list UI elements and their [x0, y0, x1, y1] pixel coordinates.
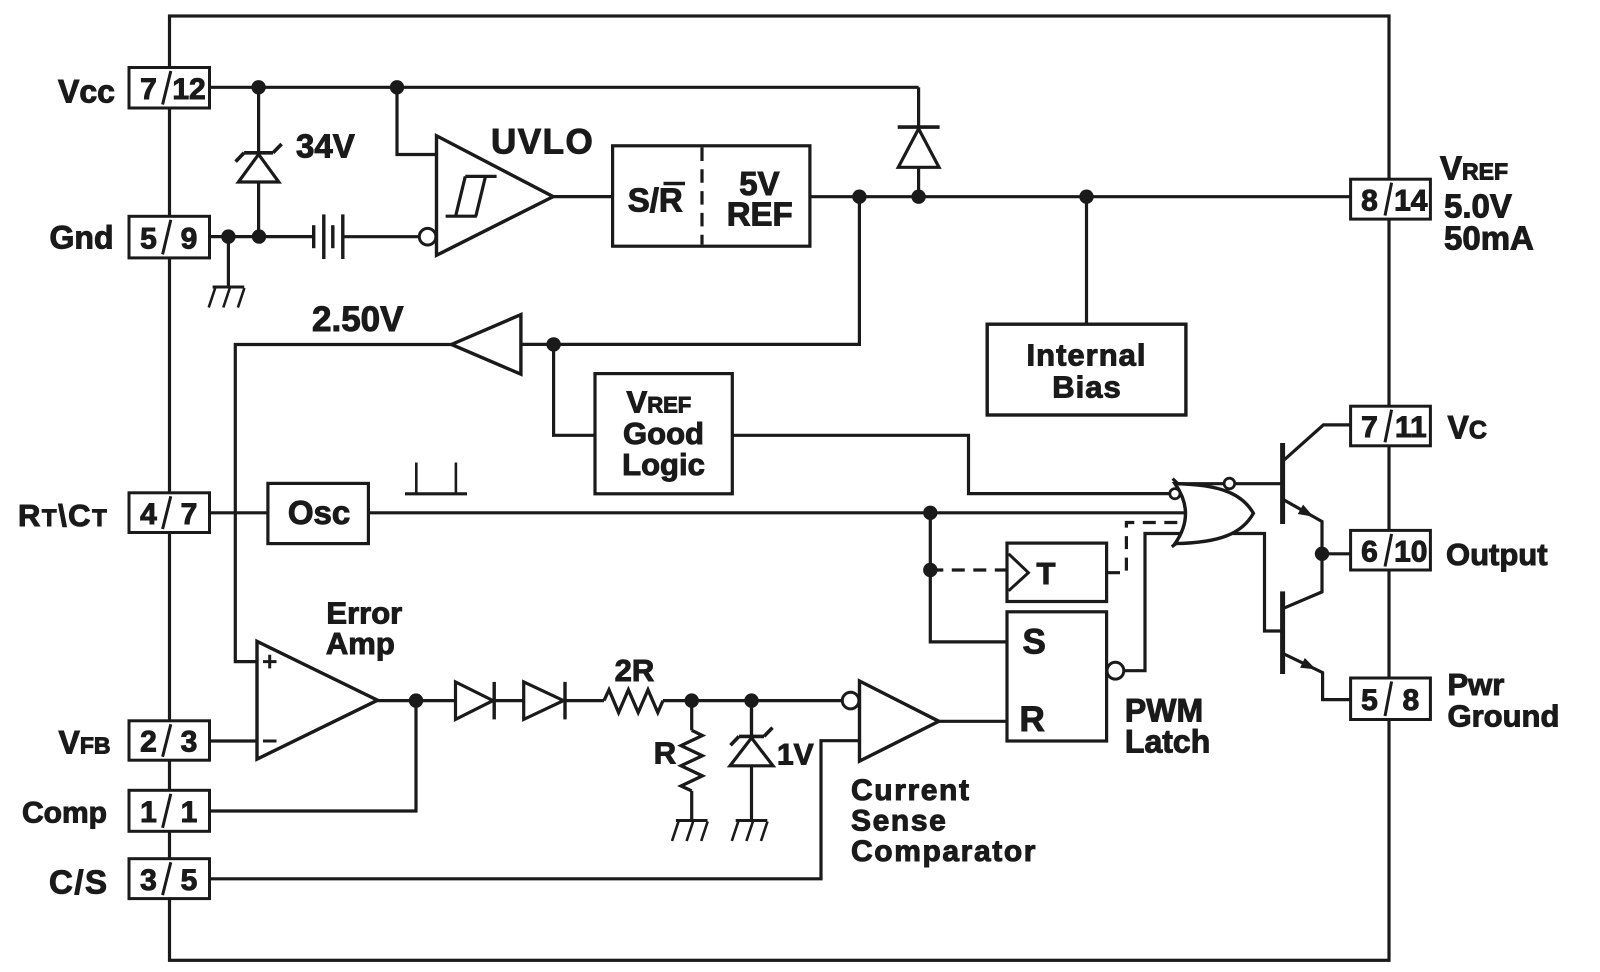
svg-text:1V: 1V: [777, 739, 814, 772]
block Osc: [268, 483, 369, 543]
pin box RT/CT 4/7: [129, 493, 210, 533]
label PWM: [1125, 693, 1203, 729]
svg-text:10: 10: [1394, 535, 1427, 568]
label 5V: [739, 165, 779, 202]
node 2.50V-goodlogic: [546, 337, 560, 351]
svg-text:VFB: VFB: [59, 725, 111, 761]
wire zener D3 top lead: [257, 87, 260, 153]
svg-text:8: 8: [1402, 684, 1419, 717]
label Gnd: [50, 219, 114, 255]
transistor Q2 collector: [1283, 554, 1322, 609]
node divider zener: [744, 693, 758, 707]
svg-text:Output: Output: [1446, 537, 1548, 572]
svg-text:Error: Error: [326, 595, 402, 630]
block S/R 5V REF: [613, 146, 810, 246]
block Internal Bias: [987, 324, 1186, 415]
label S: [1023, 622, 1046, 661]
resistor 2R: [604, 690, 663, 713]
label Comp: [22, 796, 107, 829]
svg-text:Current: Current: [851, 774, 971, 807]
wire RT/CT to Osc: [210, 511, 268, 514]
wire Vcc rail: [210, 86, 919, 89]
diode D1: [456, 682, 495, 720]
wire 2.50V amp output to Error Amp: [235, 345, 452, 662]
wire resistor R bottom lead: [690, 791, 693, 821]
node T clock tap: [923, 563, 937, 577]
label VREF: [1440, 150, 1508, 187]
gate output bubble: [1224, 478, 1235, 489]
label 50mA: [1444, 220, 1534, 257]
wire D2 to resistor 2R: [566, 699, 604, 702]
comparator input bubble: [842, 692, 859, 709]
svg-text:R: R: [654, 736, 676, 771]
battery offset source: [314, 214, 343, 259]
svg-text:5: 5: [140, 222, 157, 255]
pin box VFB 2/3: [129, 721, 210, 760]
label VFB: [59, 725, 111, 761]
label Pwr: [1448, 667, 1505, 702]
svg-text:5: 5: [1361, 684, 1378, 717]
gate input bubble: [1170, 489, 1180, 499]
wire Comp to Error Amp output: [210, 701, 417, 811]
wire UVLO output: [553, 195, 613, 198]
pin box Vcc 7/12: [129, 68, 210, 109]
zener diode D3 34V: [236, 144, 282, 182]
svg-text:Good: Good: [623, 416, 704, 451]
pin box Output 6/10: [1351, 530, 1431, 570]
wire PWM latch output: [1124, 534, 1281, 671]
latch output bubble: [1107, 662, 1124, 679]
wire ground branch: [227, 237, 230, 287]
wire zener D5 bottom lead: [750, 766, 753, 821]
wire Internal Bias feed: [1085, 197, 1088, 325]
svg-text:Osc: Osc: [288, 494, 350, 531]
label Error: [326, 595, 402, 630]
block VREF Good Logic: [595, 374, 732, 494]
pin box C/S 3/5: [129, 859, 210, 899]
label 1V: [777, 739, 814, 772]
svg-text:C/S: C/S: [49, 864, 109, 901]
svg-text:VC: VC: [1448, 410, 1487, 446]
label UVLO: [491, 123, 594, 162]
svg-text:11: 11: [1395, 411, 1427, 444]
label Current: [851, 774, 971, 807]
label Logic: [622, 447, 705, 482]
node divider 2R-R: [685, 693, 699, 707]
label S/R bar: [628, 182, 685, 219]
svg-text:RT\CT: RT\CT: [18, 498, 108, 533]
clock waveform glyph: [405, 463, 467, 494]
latch PWM S/R box: [1007, 612, 1107, 741]
svg-text:S: S: [1023, 622, 1046, 661]
label Output: [1446, 537, 1548, 572]
flip-flop T box: [1007, 543, 1107, 601]
wire diode D4 top lead: [917, 87, 920, 127]
transistor Q2 emitter: [1283, 653, 1351, 699]
svg-text:Ground: Ground: [1448, 698, 1560, 733]
node VREF-2.50V tap: [852, 190, 866, 204]
wire Osc drop to latch S: [930, 513, 1007, 642]
wire Good Logic output to gate: [732, 435, 1170, 493]
wire gate to upper base: [1175, 482, 1283, 485]
svg-text:7: 7: [140, 73, 157, 106]
wire Error Amp output: [378, 699, 456, 702]
wire output node to pin: [1322, 552, 1351, 555]
diode D2: [524, 682, 565, 720]
IC boundary: [170, 16, 1390, 960]
diode D4: [898, 127, 940, 167]
svg-text:50mA: 50mA: [1444, 220, 1534, 257]
pin box Pwr Ground 5/8: [1351, 678, 1431, 720]
label 34V: [296, 128, 355, 165]
op-amp UVLO comparator: [437, 136, 554, 256]
svg-text:Pwr: Pwr: [1448, 667, 1505, 702]
wire battery to UVLO bubble: [343, 235, 420, 238]
node Gnd-ground: [221, 229, 235, 243]
ground symbol under R: [672, 821, 708, 842]
svg-text:Vcc: Vcc: [58, 74, 115, 110]
svg-text:3: 3: [140, 864, 157, 897]
wire resistor R top lead: [690, 701, 693, 731]
svg-text:7: 7: [181, 498, 198, 531]
op-amp Current Sense Comparator: [860, 681, 939, 761]
ground symbol under 1V zener: [732, 821, 768, 842]
wire C/S input: [210, 741, 860, 879]
svg-text:1: 1: [181, 796, 198, 829]
label R divider: [654, 736, 676, 771]
svg-text:Sense: Sense: [851, 805, 947, 838]
pin box Vc 7/11: [1351, 406, 1431, 446]
transistor Q2 base bar: [1280, 591, 1285, 674]
wire dashed Osc to T clock: [930, 568, 1007, 571]
wire VREF to 2.50V amp: [521, 197, 860, 345]
svg-text:Comp: Comp: [22, 796, 107, 829]
wire Gnd rail: [210, 235, 314, 238]
svg-text:4: 4: [140, 498, 157, 531]
wire Good Logic input tap: [554, 344, 595, 435]
svg-text:9: 9: [181, 222, 198, 255]
gate OR output driver: [1172, 479, 1254, 547]
node Osc clock: [923, 506, 937, 520]
label C/S: [49, 864, 109, 901]
svg-text:7: 7: [1361, 411, 1378, 444]
wire dashed T output to gate: [1107, 523, 1235, 573]
label RT/CT: [18, 498, 108, 533]
svg-text:3: 3: [181, 726, 198, 759]
transistor Q1 emitter: [1283, 499, 1322, 548]
wire diode D4 bottom lead: [917, 167, 920, 196]
svg-text:14: 14: [1394, 184, 1428, 217]
ground symbol at Gnd pin: [209, 287, 245, 308]
svg-text:8: 8: [1361, 184, 1378, 217]
svg-text:Internal: Internal: [1027, 338, 1147, 373]
label Internal: [1027, 338, 1147, 373]
node Gnd-zener: [252, 229, 266, 243]
wire VFB input: [210, 739, 258, 742]
pin box Comp 1/1: [129, 790, 210, 831]
label 5.0V: [1444, 188, 1512, 225]
wire VREF rail: [811, 195, 1351, 198]
label Ground: [1448, 698, 1560, 733]
wire 2R to comparator bubble: [663, 699, 843, 702]
op-amp 2.50V buffer: [452, 315, 521, 375]
svg-text:6: 6: [1361, 535, 1378, 568]
label Bias: [1052, 370, 1121, 405]
transistor Q1 collector: [1283, 425, 1352, 461]
wire comparator output to latch R: [939, 720, 1007, 723]
svg-text:Amp: Amp: [326, 626, 395, 661]
svg-text:Bias: Bias: [1052, 370, 1121, 405]
svg-text:2R: 2R: [615, 653, 655, 688]
label R latch: [1020, 700, 1045, 739]
label Osc: [288, 494, 350, 531]
svg-text:Logic: Logic: [622, 447, 705, 482]
resistor R: [681, 730, 702, 791]
wire Osc clock output: [368, 511, 1240, 514]
svg-text:T: T: [1037, 556, 1056, 591]
label Latch: [1125, 724, 1210, 760]
label Vc: [1448, 410, 1487, 446]
label T: [1037, 556, 1056, 591]
svg-text:5: 5: [181, 864, 198, 897]
node Error Amp output: [409, 693, 423, 707]
label Vcc: [58, 74, 115, 110]
label Sense: [851, 805, 947, 838]
wire UVLO plus input branch: [397, 87, 437, 154]
svg-text:12: 12: [172, 73, 205, 106]
zener diode D5 1V: [730, 702, 773, 766]
svg-text:2.50V: 2.50V: [312, 300, 404, 339]
svg-text:UVLO: UVLO: [491, 123, 594, 162]
node Vcc-UVLO: [390, 80, 404, 94]
svg-text:Gnd: Gnd: [50, 219, 114, 255]
node VREF-bias: [1079, 190, 1093, 204]
label 2R: [615, 653, 655, 688]
node VREF-diode: [911, 190, 925, 204]
transistor Q1 base bar: [1280, 443, 1285, 524]
node Vcc-zener: [251, 80, 265, 94]
svg-text:REF: REF: [727, 195, 793, 232]
op-amp Error Amp: [257, 641, 378, 759]
svg-text:Comparator: Comparator: [851, 835, 1037, 868]
label REF: [727, 195, 793, 232]
label Good: [623, 416, 704, 451]
wire zener D3 bottom lead: [257, 181, 260, 237]
pin box VREF 8/14: [1351, 179, 1431, 219]
svg-text:Latch: Latch: [1125, 724, 1210, 760]
label Comparator: [851, 835, 1037, 868]
svg-text:S/R: S/R: [628, 182, 683, 219]
node Output: [1315, 547, 1329, 561]
label VREF good: [627, 385, 692, 420]
svg-text:2: 2: [140, 726, 157, 759]
svg-text:34V: 34V: [296, 128, 355, 165]
svg-text:R: R: [1020, 700, 1045, 739]
UVLO input bubble: [419, 228, 436, 245]
wire zener D5 top lead: [750, 701, 753, 737]
label Amp: [326, 626, 395, 661]
wire diode D1 to D2: [495, 699, 524, 702]
label 2.50V: [312, 300, 404, 339]
pin box Gnd 5/9: [129, 216, 210, 258]
svg-text:1: 1: [140, 796, 157, 829]
svg-text:VREF: VREF: [1440, 150, 1508, 187]
